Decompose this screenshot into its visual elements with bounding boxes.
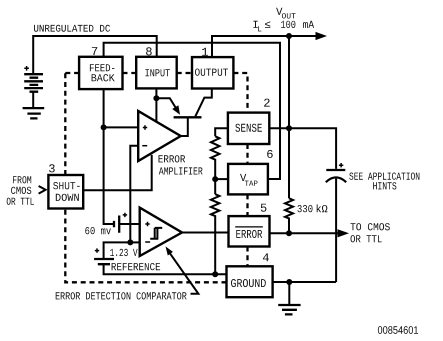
label INPUT — [145, 69, 170, 76]
wire sense left to divider — [215, 128, 228, 136]
label UNREGULATED DC — [34, 25, 110, 32]
node input junction — [153, 95, 159, 101]
label REFERENCE — [112, 263, 161, 270]
wire base drive from error amp — [181, 117, 188, 136]
box INPUT pin 8 — [136, 57, 177, 89]
error bar overline — [235, 226, 263, 228]
wire input pin down — [155, 88, 157, 98]
node ground junction — [286, 279, 292, 285]
pin 6 label — [267, 150, 273, 158]
node divider bottom — [212, 271, 218, 277]
resistor R1 — [211, 136, 220, 194]
dashed IC boundary right — [246, 144, 248, 266]
battery 60 mv offset — [114, 216, 119, 233]
dashed IC boundary top — [65, 73, 247, 113]
error amp plus — [143, 125, 147, 129]
node plus input junction — [101, 124, 107, 130]
arrow from cmos — [39, 186, 46, 194]
box FEED-BACK pin 7 — [79, 57, 122, 89]
label part number — [378, 326, 418, 334]
pin 4 label — [263, 253, 269, 261]
label V of VTAP — [240, 174, 246, 181]
wire comparator output — [182, 232, 229, 234]
label CMOS — [11, 187, 31, 194]
node reference junction — [127, 239, 133, 245]
label 330 — [298, 205, 313, 212]
wire vout down to pullup — [288, 36, 290, 198]
label TO CMOS — [351, 223, 390, 230]
transistor Q1 collector — [195, 89, 212, 117]
label SENSE — [235, 124, 262, 132]
pin 7 label — [92, 47, 97, 55]
label mA — [303, 21, 314, 28]
wire error amp supply — [155, 98, 157, 121]
pin 5 label — [261, 204, 267, 212]
resistor 330k — [285, 198, 293, 233]
battery 1.23V reference — [94, 259, 114, 264]
label kOhm — [317, 204, 328, 212]
transistor Q1 emitter — [156, 98, 176, 109]
wire reference node to 1.23V battery — [104, 242, 131, 259]
resistor R2 — [211, 194, 220, 274]
pointer arrowhead — [166, 246, 173, 255]
wire reference to ground rail — [104, 264, 227, 274]
label GROUND — [231, 279, 266, 287]
wire tap to vtap box — [215, 178, 228, 180]
wire capacitor to ground rail — [335, 178, 337, 282]
label ERROR DETECTION COMPARATOR — [56, 292, 187, 299]
box SHUT-DOWN pin 3 — [48, 175, 83, 209]
box GROUND pin 4 — [227, 266, 273, 297]
pin 3 label — [49, 164, 55, 172]
wire output pin 1 to vout — [212, 36, 318, 57]
box ERROR pin 5 — [229, 216, 270, 246]
60 mv plus sign — [123, 213, 127, 217]
1.23V plus sign — [95, 248, 99, 252]
node vout junction — [286, 33, 292, 39]
label DOWN — [56, 194, 79, 201]
wire error amp plus input — [104, 126, 139, 128]
box V TAP pin 6 — [228, 164, 268, 195]
box SENSE pin 2 — [228, 113, 269, 144]
wire feedback pin down to 60mv battery — [104, 89, 114, 224]
battery B1 plus sign — [24, 66, 29, 71]
label 100 — [281, 21, 295, 28]
wire sense to vout node and capacitor — [269, 128, 336, 169]
pointer line to comparator — [169, 252, 198, 294]
comparator minus — [145, 241, 150, 243]
capacitor C1 bottom plate — [326, 177, 346, 182]
label OR TTL — [7, 198, 34, 205]
transistor Q1 emitter arrow — [172, 105, 180, 115]
error amp minus — [142, 145, 147, 147]
capacitor C1 plus sign — [339, 163, 343, 167]
ground symbol right — [278, 305, 300, 314]
label L subscript — [258, 26, 261, 31]
label SHUT- — [53, 182, 79, 189]
dashed IC boundary bottom and left — [65, 73, 226, 282]
label OUT subscript — [282, 13, 296, 18]
comparator hysteresis symbol — [150, 228, 162, 239]
label I — [253, 21, 257, 28]
transistor Q1 base bar — [174, 116, 202, 118]
comparator plus — [145, 222, 149, 226]
wire battery to ground — [32, 92, 34, 107]
arrow vout — [316, 32, 328, 40]
arrow to cmos — [338, 229, 350, 237]
label 1.23 V — [110, 249, 137, 256]
wire shutdown to error amp — [83, 155, 152, 190]
wire error amp minus input down — [130, 146, 138, 243]
label AMPLIFIER — [159, 167, 203, 174]
label HINTS — [373, 182, 396, 189]
label SEE APPLICATION — [349, 173, 419, 180]
capacitor C1 top plate — [326, 169, 345, 171]
label FROM — [13, 176, 31, 183]
label ERROR amplifier — [159, 155, 186, 162]
label FEED- — [90, 64, 115, 71]
node sense junction — [286, 125, 292, 131]
label TAP subscript — [245, 181, 258, 186]
label OR TTL 2 — [351, 235, 382, 242]
wire error output to cmos — [270, 232, 340, 234]
pin 8 label — [146, 47, 152, 55]
label ERROR pin — [236, 230, 262, 238]
wire feedback pin 7 to vtap external — [104, 43, 280, 179]
node error pullup junction — [286, 230, 292, 236]
op-amp error amplifier U1 — [138, 111, 181, 161]
wire comparator minus input — [130, 241, 139, 243]
pin 2 label — [264, 99, 270, 107]
box OUTPUT pin 1 — [192, 57, 233, 88]
label less-equal — [265, 21, 270, 28]
node divider tap — [212, 176, 218, 182]
wire unregulated dc rail to input pin 8 — [33, 36, 157, 74]
wire ground box to capacitor — [273, 281, 337, 283]
wire comparator plus input — [119, 223, 140, 225]
comparator U2 — [140, 208, 182, 256]
label BACK — [92, 74, 115, 81]
label 60 mv — [85, 227, 111, 234]
label OUTPUT — [195, 69, 228, 76]
wire ground stem — [288, 282, 290, 305]
pin 1 label — [202, 48, 208, 56]
ground symbol left — [23, 108, 45, 118]
battery B1 unregulated source — [24, 74, 43, 92]
label V — [276, 8, 282, 15]
